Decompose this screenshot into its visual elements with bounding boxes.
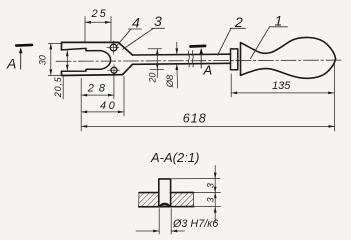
svg-text:4: 4 <box>132 14 140 30</box>
shaft <box>133 54 231 64</box>
svg-text:25: 25 <box>91 8 108 20</box>
callout 2 <box>218 28 246 55</box>
svg-text:2: 2 <box>234 14 243 30</box>
pin hole bottom <box>108 65 120 76</box>
centerline main axis <box>56 60 342 61</box>
ferrule <box>231 49 238 70</box>
dimension diameter 3 H7/k6 <box>136 209 185 235</box>
svg-text:618: 618 <box>183 112 207 126</box>
section bar (fork arm cross-section, hatched) <box>139 192 194 206</box>
svg-text:Ø3 H7/к6: Ø3 H7/к6 <box>172 218 218 230</box>
svg-text:A: A <box>203 63 213 78</box>
svg-text:3: 3 <box>206 197 216 202</box>
handle outline <box>241 37 336 78</box>
svg-text:28: 28 <box>87 83 110 95</box>
svg-text:40: 40 <box>100 100 117 112</box>
dimension 20,5 <box>63 50 68 99</box>
svg-text:3: 3 <box>206 183 216 188</box>
svg-text:20,5: 20,5 <box>53 76 63 98</box>
dimension 3 (pin protrusion) <box>171 166 221 193</box>
svg-text:A-A(2:1): A-A(2:1) <box>150 150 199 165</box>
dimension 20 <box>148 49 164 78</box>
svg-text:20: 20 <box>148 73 158 84</box>
dimension 30 <box>48 43 62 75</box>
dimension 618 <box>81 64 334 131</box>
dimension 135 <box>231 74 334 97</box>
dimension 25 <box>85 17 111 43</box>
svg-text:Ø8: Ø8 <box>165 74 176 88</box>
section plane mark A left <box>16 45 32 69</box>
section plane mark A right <box>191 46 206 68</box>
svg-text:A: A <box>6 55 16 71</box>
dimension diameter 8 <box>175 42 178 88</box>
shaft break lines <box>188 51 193 68</box>
fork slot <box>62 48 111 71</box>
callout 1 <box>251 27 288 59</box>
dimension 28 <box>81 76 114 100</box>
svg-text:135: 135 <box>272 80 291 92</box>
callout 3 <box>123 28 165 49</box>
svg-text:1: 1 <box>275 13 283 29</box>
dimension 3 (arm thickness) <box>194 193 221 223</box>
fork body outline <box>62 42 133 75</box>
callout 4 <box>116 29 142 47</box>
pin (section view) <box>159 179 171 207</box>
svg-text:30: 30 <box>37 55 47 65</box>
dimension 40 <box>81 77 124 117</box>
svg-text:3: 3 <box>154 13 162 29</box>
pin hole top <box>107 41 119 55</box>
